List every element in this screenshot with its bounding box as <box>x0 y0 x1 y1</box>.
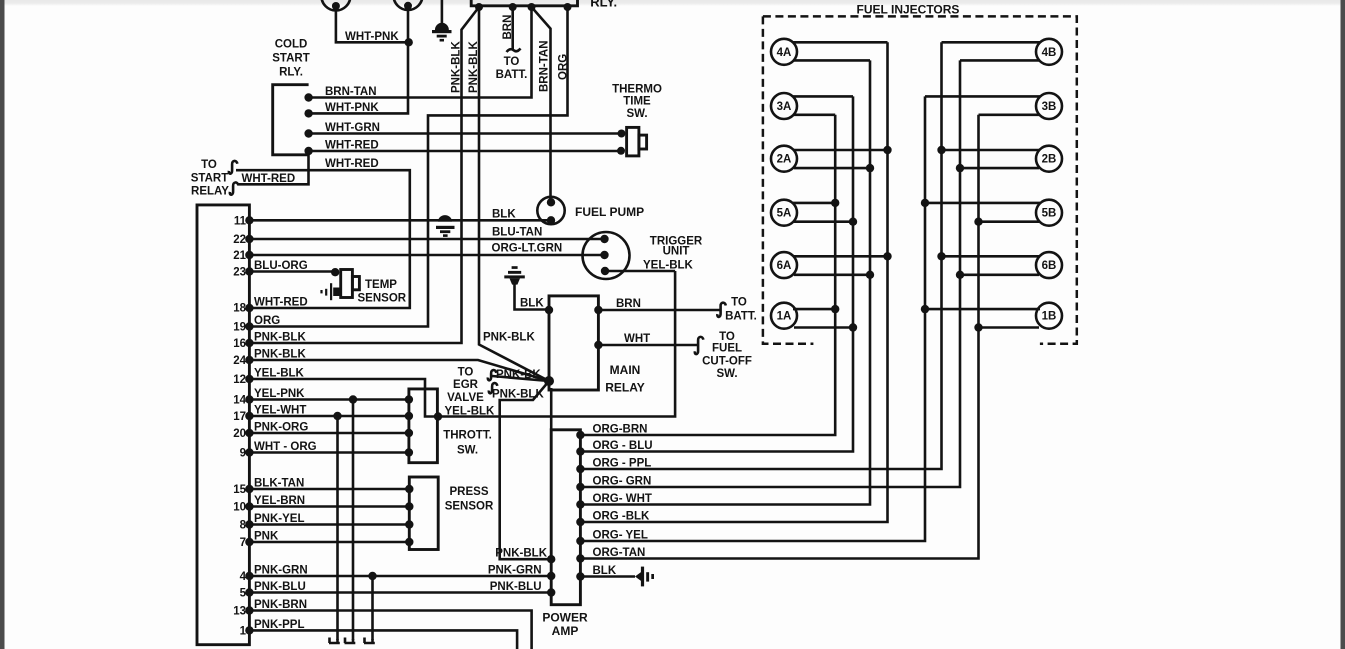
svg-text:ORG: ORG <box>557 54 569 80</box>
svg-text:WHT-RED: WHT-RED <box>242 173 296 185</box>
svg-text:BLU-TAN: BLU-TAN <box>492 227 542 239</box>
svg-text:ORG: ORG <box>254 315 280 327</box>
svg-text:10: 10 <box>233 502 246 514</box>
svg-text:8: 8 <box>240 520 247 532</box>
svg-text:24: 24 <box>233 355 246 367</box>
svg-text:BRN: BRN <box>502 15 514 40</box>
svg-text:TIME: TIME <box>623 96 651 108</box>
svg-text:3A: 3A <box>777 101 792 113</box>
svg-text:ORG - PPL: ORG - PPL <box>593 458 652 470</box>
svg-text:7: 7 <box>240 537 246 549</box>
svg-text:SENSOR: SENSOR <box>358 293 407 305</box>
svg-text:WHT - ORG: WHT - ORG <box>254 441 317 453</box>
svg-text:2A: 2A <box>777 154 792 166</box>
svg-text:PNK-GRN: PNK-GRN <box>488 565 542 577</box>
svg-text:YEL-BLK: YEL-BLK <box>643 260 694 272</box>
svg-text:1B: 1B <box>1042 311 1057 323</box>
svg-text:FUEL PUMP: FUEL PUMP <box>575 205 644 219</box>
svg-text:YEL-BLK: YEL-BLK <box>254 368 305 380</box>
svg-text:PNK-BLU: PNK-BLU <box>254 581 306 593</box>
svg-text:WHT-RED: WHT-RED <box>254 297 308 309</box>
svg-text:TO: TO <box>504 56 520 68</box>
svg-text:5A: 5A <box>777 208 792 220</box>
svg-text:PNK-BLK: PNK-BLK <box>492 389 544 401</box>
svg-text:ORG-LT.GRN: ORG-LT.GRN <box>492 243 563 255</box>
svg-text:SW.: SW. <box>457 445 478 457</box>
svg-text:BLU-ORG: BLU-ORG <box>254 260 308 272</box>
svg-text:CUT-OFF: CUT-OFF <box>702 356 752 368</box>
svg-text:EGR: EGR <box>453 379 479 391</box>
svg-text:2B: 2B <box>1042 154 1057 166</box>
svg-text:6A: 6A <box>777 260 792 272</box>
svg-text:BRN: BRN <box>616 298 641 310</box>
svg-text:RLY.: RLY. <box>279 67 303 79</box>
svg-text:BLK: BLK <box>593 565 617 577</box>
svg-text:THROTT.: THROTT. <box>443 430 492 442</box>
svg-text:RLY.: RLY. <box>590 0 617 9</box>
svg-text:PNK-BLK: PNK-BLK <box>483 332 535 344</box>
svg-text:WHT: WHT <box>624 333 650 345</box>
svg-text:15: 15 <box>233 484 246 496</box>
svg-text:COLD: COLD <box>275 39 308 51</box>
svg-text:MAIN: MAIN <box>610 363 641 377</box>
svg-text:BATT.: BATT. <box>496 69 528 81</box>
svg-text:TO: TO <box>201 159 217 171</box>
svg-text:BLK-TAN: BLK-TAN <box>254 478 304 490</box>
svg-text:17: 17 <box>233 411 246 423</box>
svg-text:TO: TO <box>731 297 747 309</box>
svg-text:SENSOR: SENSOR <box>445 501 494 513</box>
svg-text:PRESS: PRESS <box>450 486 489 498</box>
svg-text:PNK-YEL: PNK-YEL <box>254 513 304 525</box>
svg-text:16: 16 <box>233 338 246 350</box>
svg-text:9: 9 <box>240 448 246 460</box>
svg-text:6B: 6B <box>1042 260 1057 272</box>
svg-text:PNK-BLU: PNK-BLU <box>490 581 542 593</box>
svg-text:TO: TO <box>719 331 735 343</box>
svg-text:WHT-PNK: WHT-PNK <box>325 102 379 114</box>
svg-text:WHT-GRN: WHT-GRN <box>325 122 380 134</box>
svg-text:POWER: POWER <box>542 611 588 625</box>
svg-text:5: 5 <box>240 588 247 600</box>
svg-text:PNK: PNK <box>254 531 279 543</box>
svg-text:18: 18 <box>233 303 246 315</box>
svg-text:4: 4 <box>240 571 247 583</box>
svg-text:YEL-BRN: YEL-BRN <box>254 495 305 507</box>
svg-text:ORG -BLK: ORG -BLK <box>593 511 651 523</box>
svg-text:PNK-ORG: PNK-ORG <box>254 422 308 434</box>
svg-text:21: 21 <box>233 250 246 262</box>
svg-text:START: START <box>272 53 309 65</box>
svg-text:PNK-BLK: PNK-BLK <box>468 41 480 93</box>
svg-text:22: 22 <box>233 234 246 246</box>
svg-text:11: 11 <box>234 215 247 227</box>
svg-text:SW.: SW. <box>626 108 647 120</box>
svg-text:3B: 3B <box>1042 101 1057 113</box>
svg-text:BRN-TAN: BRN-TAN <box>538 40 550 92</box>
svg-text:PNK-BLK: PNK-BLK <box>254 349 306 361</box>
svg-text:BLK: BLK <box>520 298 544 310</box>
svg-text:SW.: SW. <box>716 368 737 380</box>
svg-text:PNK-BK: PNK-BK <box>496 369 541 381</box>
svg-text:RELAY: RELAY <box>191 186 229 198</box>
svg-text:PNK-PPL: PNK-PPL <box>254 619 304 631</box>
svg-text:PNK-BLK: PNK-BLK <box>450 41 462 93</box>
svg-text:WHT-RED: WHT-RED <box>325 158 379 170</box>
svg-text:PNK-BLK: PNK-BLK <box>495 548 547 560</box>
svg-text:ORG-TAN: ORG-TAN <box>593 547 646 559</box>
svg-text:ORG - BLU: ORG - BLU <box>593 440 653 452</box>
svg-text:14: 14 <box>233 395 246 407</box>
svg-text:TO: TO <box>458 367 474 379</box>
svg-text:23: 23 <box>233 267 246 279</box>
svg-text:BLK: BLK <box>492 209 516 221</box>
svg-text:20: 20 <box>233 428 246 440</box>
svg-text:AMP: AMP <box>552 624 579 638</box>
svg-text:ORG- YEL: ORG- YEL <box>593 530 648 542</box>
svg-text:YEL-BLK: YEL-BLK <box>445 406 496 418</box>
svg-text:WHT-PNK: WHT-PNK <box>345 31 399 43</box>
svg-text:ORG- WHT: ORG- WHT <box>593 493 652 505</box>
svg-text:5B: 5B <box>1042 208 1057 220</box>
svg-text:PNK-BRN: PNK-BRN <box>254 599 307 611</box>
svg-text:PNK-GRN: PNK-GRN <box>254 565 308 577</box>
svg-text:RELAY: RELAY <box>605 381 645 395</box>
svg-text:ORG- GRN: ORG- GRN <box>593 476 652 488</box>
svg-text:YEL-PNK: YEL-PNK <box>254 388 305 400</box>
svg-text:BATT.: BATT. <box>725 311 757 323</box>
svg-text:19: 19 <box>233 322 246 334</box>
svg-text:4A: 4A <box>777 47 792 59</box>
svg-text:WHT-RED: WHT-RED <box>325 140 379 152</box>
svg-text:VALVE: VALVE <box>447 392 484 404</box>
svg-text:START: START <box>191 172 228 184</box>
svg-text:FUEL: FUEL <box>712 343 742 355</box>
svg-text:TEMP: TEMP <box>365 279 397 291</box>
svg-text:BRN-TAN: BRN-TAN <box>325 86 377 98</box>
svg-text:ORG-BRN: ORG-BRN <box>593 424 648 436</box>
svg-text:THERMO: THERMO <box>612 84 662 96</box>
svg-text:12: 12 <box>233 374 246 386</box>
svg-text:1: 1 <box>240 625 247 637</box>
svg-text:PNK-BLK: PNK-BLK <box>254 332 306 344</box>
svg-text:UNIT: UNIT <box>663 246 690 258</box>
svg-text:FUEL INJECTORS: FUEL INJECTORS <box>857 3 960 17</box>
svg-text:4B: 4B <box>1042 47 1057 59</box>
svg-text:1A: 1A <box>777 311 792 323</box>
svg-text:YEL-WHT: YEL-WHT <box>254 405 306 417</box>
svg-text:13: 13 <box>233 606 246 618</box>
